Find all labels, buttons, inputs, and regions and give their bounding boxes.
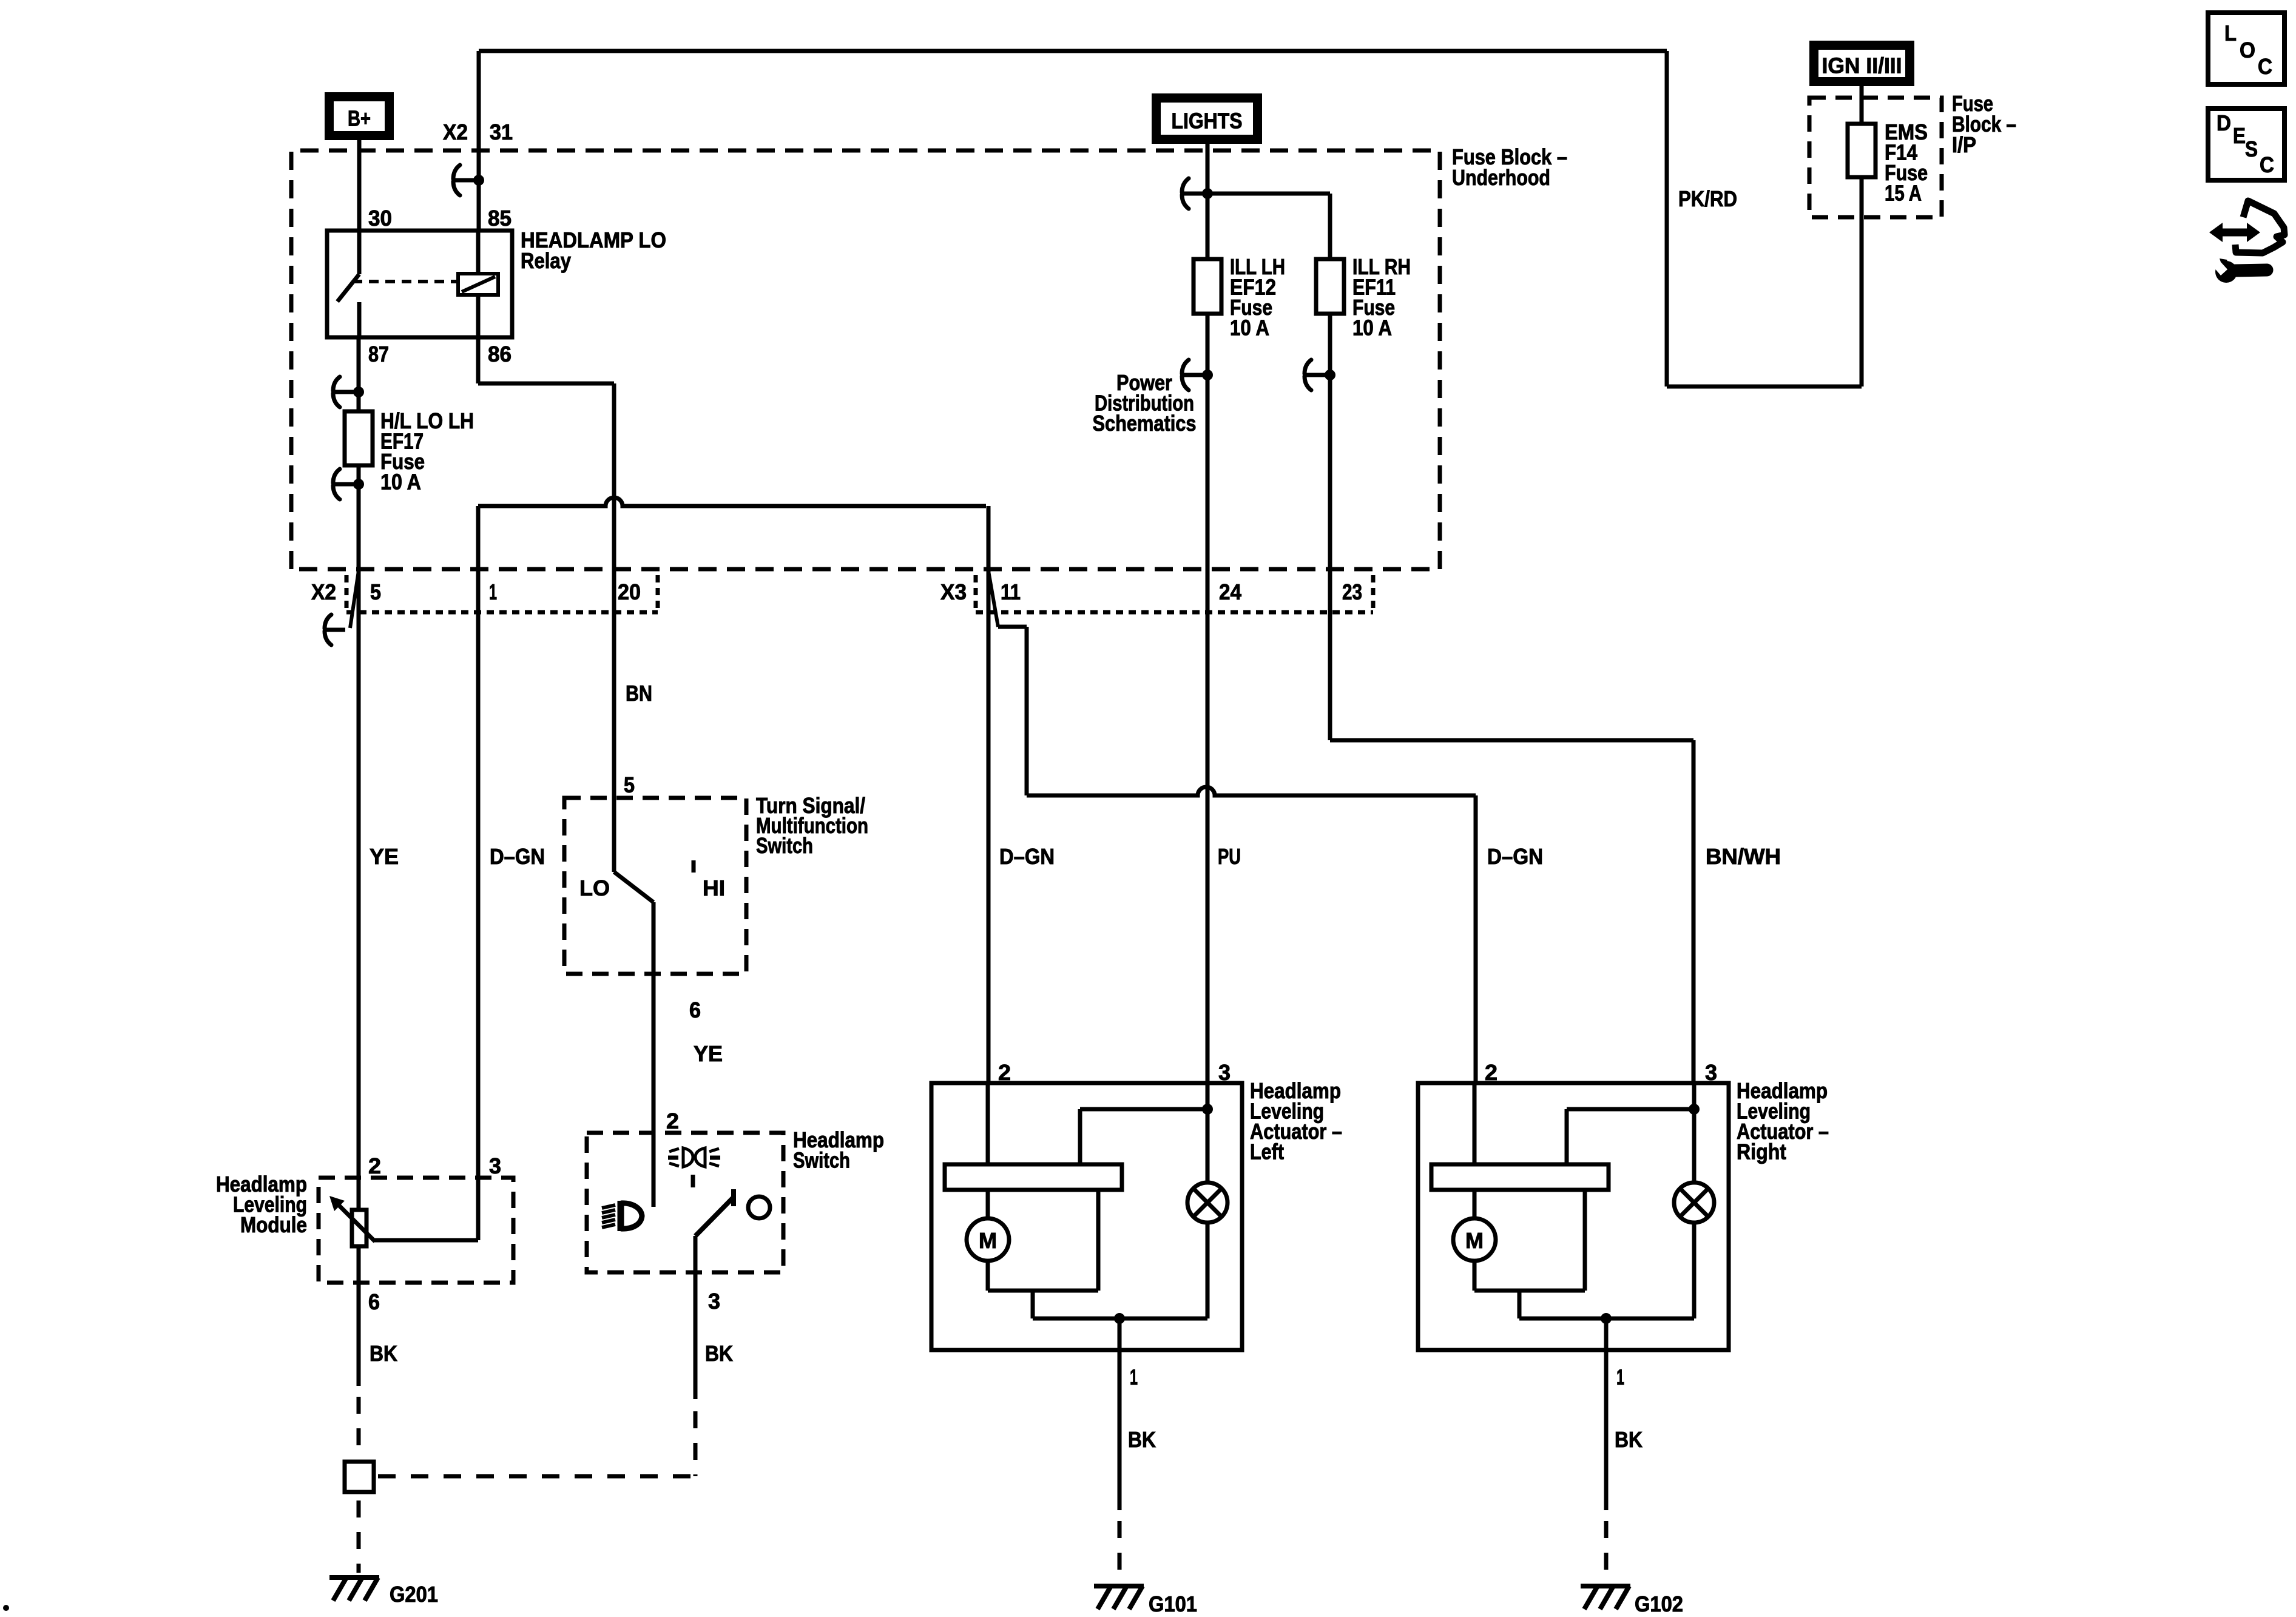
X2 band label	[311, 579, 336, 604]
headlamp switch lever	[695, 1189, 734, 1236]
svg-text:1: 1	[1616, 1365, 1624, 1389]
module pin 6 label	[368, 1289, 380, 1314]
svg-text:D–GN: D–GN	[999, 844, 1055, 869]
svg-text:20: 20	[618, 579, 641, 604]
svg-text:BK: BK	[370, 1341, 397, 1366]
svg-text:6: 6	[368, 1289, 380, 1314]
svg-text:BK: BK	[1615, 1427, 1643, 1452]
svg-text:87: 87	[368, 342, 389, 366]
BK dashed to G101	[1118, 1521, 1122, 1584]
wire fuse F14 down	[1860, 177, 1864, 387]
wire relay 87 to fuse EF17	[357, 337, 361, 411]
ground G201	[329, 1578, 438, 1607]
wire PK/RD horizontal	[1667, 385, 1862, 389]
turn signal switch case (dashed)	[564, 798, 746, 974]
svg-text:D–GN: D–GN	[490, 844, 545, 869]
wire D-GN to X3-11 and left actuator pin 2	[987, 506, 991, 1083]
right pin 1 label	[1616, 1365, 1624, 1389]
fuse block - underhood label	[1452, 144, 1567, 190]
connector clip below EF11	[1305, 360, 1335, 390]
YE label	[370, 844, 399, 869]
pin 31 label	[490, 120, 513, 144]
svg-text:LIGHTS: LIGHTS	[1172, 109, 1243, 133]
pin 20 label	[618, 579, 641, 604]
headlamp icon	[602, 1201, 642, 1231]
BN label	[626, 681, 652, 706]
LOC legend box	[2208, 13, 2284, 84]
YE label (switch)	[694, 1041, 723, 1066]
svg-text:30: 30	[368, 206, 392, 231]
svg-text:6: 6	[689, 998, 701, 1022]
svg-text:11: 11	[1001, 579, 1021, 604]
module label	[216, 1172, 307, 1237]
svg-text:X2: X2	[311, 579, 336, 604]
headlamp leveling actuator - right	[1418, 1083, 1729, 1350]
pin 24 label	[1219, 579, 1241, 604]
fuse EF17 label	[380, 408, 474, 495]
HI contact stub	[692, 860, 696, 873]
IGN II/III terminal	[1814, 46, 1910, 82]
turn signal switch label	[756, 793, 868, 858]
svg-text:E: E	[2233, 123, 2246, 148]
svg-text:YE: YE	[370, 844, 399, 869]
module wiper arrow	[329, 1196, 478, 1241]
fuse EMS F14	[1848, 124, 1876, 177]
X2 pin 5 label	[370, 579, 381, 604]
BK dashed splice to G201	[357, 1501, 361, 1573]
svg-text:LO: LO	[579, 876, 610, 900]
wire IGN to fuse F14	[1860, 86, 1864, 124]
svg-text:5: 5	[370, 579, 381, 604]
svg-text:Right: Right	[1737, 1139, 1786, 1164]
pin 30 label	[368, 206, 392, 231]
relay coil	[458, 231, 498, 337]
svg-text:Underhood: Underhood	[1452, 165, 1550, 190]
svg-text:24: 24	[1219, 579, 1241, 604]
connector pass-through X3-11	[988, 571, 1027, 795]
wire fuse EF11 down	[1328, 314, 1332, 375]
right actuator pin 2 label	[1485, 1060, 1497, 1085]
wire left actuator pin 1	[1118, 1350, 1122, 1510]
svg-text:S: S	[2245, 137, 2258, 161]
fuse ILL LH EF12	[1194, 259, 1221, 314]
svg-text:Left: Left	[1250, 1139, 1284, 1164]
headlamp switch pin 2 label	[666, 1109, 679, 1133]
svg-text:B+: B+	[348, 106, 371, 131]
navigation icon (arrows and wrench)	[2209, 201, 2284, 283]
relay HEADLAMP LO box	[327, 231, 512, 337]
fuse block I/P label	[1952, 91, 2016, 157]
svg-text:2: 2	[666, 1109, 679, 1133]
svg-text:15 A: 15 A	[1885, 181, 1922, 206]
fuse EF12 label	[1230, 254, 1285, 340]
svg-text:Schematics: Schematics	[1093, 411, 1197, 436]
BK dashed to splice	[378, 1411, 695, 1476]
connector clip below LIGHTS	[1182, 178, 1213, 209]
svg-text:D–GN: D–GN	[1487, 844, 1543, 869]
wire D-GN to module pin 3	[476, 506, 481, 1240]
svg-text:YE: YE	[694, 1041, 723, 1066]
fuse ILL RH EF11	[1316, 259, 1344, 314]
svg-text:Switch: Switch	[793, 1148, 850, 1173]
page mark	[3, 1605, 9, 1611]
svg-text:BN/WH: BN/WH	[1706, 844, 1781, 869]
left actuator pin 2 label	[998, 1060, 1011, 1085]
connector clip above EF17	[333, 377, 364, 407]
headlamp switch input stub	[652, 1133, 656, 1207]
connector clip X2-31	[453, 165, 484, 195]
fuse F14 label	[1885, 120, 1928, 206]
pin 1 label	[489, 579, 497, 604]
BN/WH label	[1706, 844, 1781, 869]
svg-text:X2: X2	[443, 120, 468, 144]
headlamp leveling module case (dashed)	[319, 1178, 513, 1283]
fuse block - underhood case (dashed)	[291, 150, 1440, 569]
park lamps icon	[668, 1148, 720, 1167]
X2 label (top)	[443, 120, 468, 144]
wire YE turn signal to headlamp switch	[652, 974, 656, 1133]
fuse EF17 H/L LO LH	[345, 411, 373, 465]
headlamp leveling actuator - left	[931, 1083, 1242, 1350]
headlamp switch label	[793, 1127, 884, 1173]
turn signal pin 5 label	[624, 772, 635, 797]
module pin 3 label	[489, 1153, 501, 1178]
LIGHTS terminal	[1156, 98, 1258, 140]
wire module BK	[357, 1283, 361, 1386]
svg-text:2: 2	[368, 1153, 381, 1178]
left actuator pin 3 label	[1218, 1060, 1231, 1085]
pin 85 label	[488, 206, 512, 231]
svg-text:G201: G201	[390, 1582, 438, 1607]
left pin 1 label	[1130, 1365, 1138, 1389]
pin 86 label	[488, 342, 512, 366]
wire relay 86 to X2-20	[478, 337, 614, 798]
turn signal switch contacts	[614, 798, 653, 974]
power distribution note	[1093, 370, 1197, 436]
headlamp switch case (dashed)	[587, 1133, 783, 1272]
svg-text:G101: G101	[1149, 1592, 1197, 1616]
connector clip below EF12	[1182, 360, 1213, 390]
PK/RD label	[1678, 186, 1737, 211]
svg-text:31: 31	[490, 120, 513, 144]
PU label	[1218, 844, 1241, 869]
svg-text:23: 23	[1342, 579, 1362, 604]
svg-text:M: M	[979, 1228, 997, 1253]
svg-text:85: 85	[488, 206, 512, 231]
BK label (right actuator)	[1615, 1427, 1643, 1452]
relay switch contact	[337, 231, 359, 337]
right actuator label	[1737, 1078, 1829, 1164]
wire LIGHTS to fuses	[1206, 144, 1210, 259]
svg-text:G102: G102	[1635, 1592, 1683, 1616]
X3 band label	[940, 579, 967, 604]
svg-text:Relay: Relay	[521, 248, 571, 273]
left actuator label	[1250, 1078, 1342, 1164]
module potentiometer	[352, 1178, 366, 1283]
BK dashed module to splice	[357, 1397, 361, 1462]
module pin 2 label	[368, 1153, 381, 1178]
BK label (left actuator)	[1128, 1427, 1156, 1452]
wire YE fuse EF17 to module pin 2	[357, 465, 361, 1178]
wire B+ to relay pin 30	[357, 140, 362, 231]
wire D-GN horizontal bus	[478, 498, 986, 506]
fuse block I/P case (dashed)	[1809, 98, 1942, 217]
svg-text:C: C	[2260, 152, 2274, 177]
pin 6 label	[689, 998, 701, 1022]
headlamp switch contact circle	[748, 1197, 770, 1218]
relay label	[521, 228, 666, 273]
connector X3 band	[976, 575, 1373, 612]
HI label	[703, 876, 725, 900]
svg-text:D: D	[2217, 110, 2231, 135]
svg-text:Switch: Switch	[756, 833, 813, 858]
BK label (module)	[370, 1341, 397, 1366]
svg-text:10 A: 10 A	[1230, 316, 1269, 340]
D-GN label (right actuator)	[1487, 844, 1543, 869]
svg-text:1: 1	[489, 579, 497, 604]
svg-text:I/P: I/P	[1952, 132, 1976, 157]
B+ terminal	[329, 97, 390, 136]
svg-text:10 A: 10 A	[1352, 316, 1392, 340]
svg-text:L: L	[2224, 21, 2237, 46]
LO label	[579, 876, 610, 900]
svg-text:HI: HI	[703, 876, 725, 900]
pin 23 label	[1342, 579, 1362, 604]
svg-text:O: O	[2240, 38, 2255, 62]
svg-text:X3: X3	[940, 579, 967, 604]
svg-text:M: M	[1465, 1228, 1484, 1253]
svg-text:10 A: 10 A	[380, 470, 421, 495]
relay actuating link (dashed)	[353, 280, 456, 283]
svg-text:86: 86	[488, 342, 512, 366]
svg-text:1: 1	[1130, 1365, 1138, 1389]
connector clip below EF17	[333, 469, 364, 499]
wire relay 85 to X2-31 and top bus	[479, 51, 1667, 231]
BK label (switch)	[705, 1341, 733, 1366]
svg-text:IGN II/III: IGN II/III	[1822, 53, 1902, 78]
splice box	[345, 1462, 374, 1492]
DESC legend box	[2208, 109, 2284, 180]
svg-text:5: 5	[624, 772, 635, 797]
svg-text:BK: BK	[1128, 1427, 1156, 1452]
svg-text:PK/RD: PK/RD	[1678, 186, 1737, 211]
right actuator pin 3 label	[1705, 1060, 1717, 1085]
wire headlamp switch pin 3	[694, 1236, 698, 1399]
BK dashed to G102	[1604, 1521, 1609, 1584]
D-GN label (left actuator)	[999, 844, 1055, 869]
wire fuse EF12 down	[1206, 314, 1210, 375]
connector X2 band	[346, 575, 658, 612]
ground G101	[1094, 1586, 1197, 1616]
wire D-GN branch to right actuator pin 2	[1027, 787, 1476, 1083]
wire right actuator pin 1	[1604, 1350, 1609, 1510]
wire BN-WH to right actuator pin 3	[1330, 375, 1693, 1083]
park icon stub	[691, 1175, 695, 1187]
pin 3 label (switch)	[708, 1289, 720, 1314]
fuse EF11 label	[1352, 254, 1411, 340]
connector pass-through X2-5	[325, 571, 359, 645]
svg-text:Module: Module	[240, 1212, 307, 1237]
svg-text:C: C	[2258, 54, 2272, 79]
svg-text:3: 3	[489, 1153, 501, 1178]
wire PK/RD vertical	[1665, 51, 1669, 387]
wire branch to ILL RH fuse	[1207, 194, 1330, 259]
pin 87 label	[368, 342, 389, 366]
svg-text:3: 3	[708, 1289, 720, 1314]
pin 11 label	[1001, 579, 1021, 604]
svg-text:BN: BN	[626, 681, 652, 706]
wire PU to left actuator pin 3	[1206, 375, 1210, 1083]
svg-text:PU: PU	[1218, 844, 1241, 869]
ground G102	[1581, 1586, 1683, 1616]
svg-text:BK: BK	[705, 1341, 733, 1366]
D-GN label (module)	[490, 844, 545, 869]
